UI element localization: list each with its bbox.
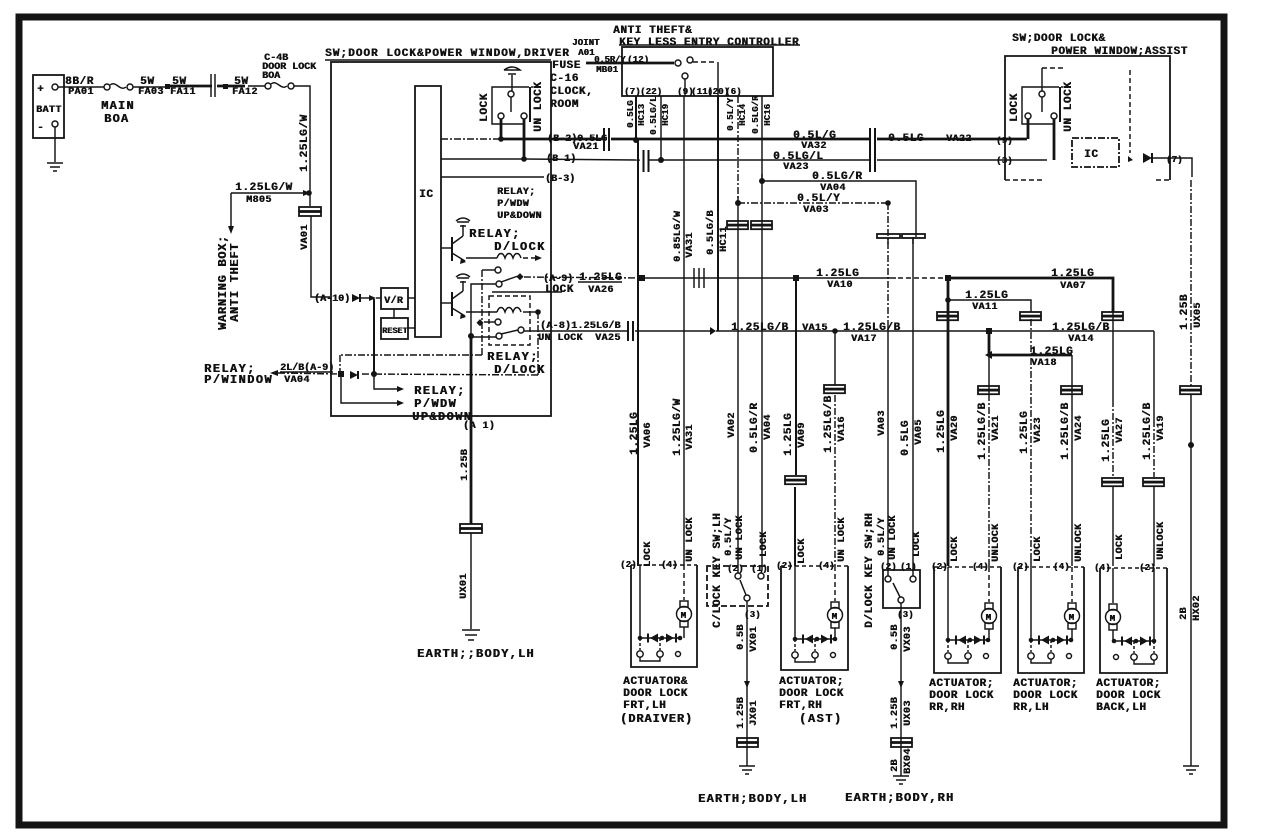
svg-text:(B-3): (B-3) (545, 173, 575, 185)
svg-text:1.25LG: 1.25LG (1051, 268, 1094, 280)
diode pair ACTUATOR DOOR LOCK FRT,RH AST (795, 638, 835, 640)
svg-text:VA20: VA20 (950, 415, 961, 441)
svg-text:FRT,LH: FRT,LH (623, 700, 666, 712)
wire 1.25LG VA11 (945, 297, 951, 303)
switch LOCK/UNLOCK driver (492, 87, 524, 124)
svg-text:UN LOCK: UN LOCK (533, 82, 545, 132)
svg-text:DOOR LOCK: DOOR LOCK (1096, 690, 1161, 702)
wire ic dash (1129, 70, 1131, 153)
svg-text:(AST): (AST) (799, 712, 843, 726)
svg-text:UNLOCK: UNLOCK (991, 524, 1002, 562)
svg-text:1.25B: 1.25B (1179, 294, 1191, 330)
ground battery (47, 163, 63, 171)
wire 1.25LG/W M805 branch (231, 192, 305, 194)
wire unlock contact down (523, 119, 526, 159)
svg-text:1.25LG: 1.25LG (965, 290, 1008, 302)
svg-text:VA03: VA03 (803, 205, 829, 216)
svg-text:VA21: VA21 (991, 415, 1002, 441)
svg-text:0.5L/Y: 0.5L/Y (876, 518, 888, 556)
transistor Q1 (451, 237, 453, 261)
svg-text:1.25LG/W: 1.25LG/W (235, 182, 293, 194)
connector on VA19 (1143, 478, 1164, 482)
svg-text:ANTI THEFT: ANTI THEFT (228, 243, 242, 322)
svg-text:UP&DOWN: UP&DOWN (497, 211, 542, 222)
relay contact A-9 LOCK (482, 269, 495, 271)
wire 1.25LG VA20 lock RR RH (947, 278, 950, 566)
svg-text:ACTUATOR;: ACTUATOR; (1013, 678, 1078, 690)
fuse C-4B DOOR LOCK 80A (248, 85, 265, 87)
svg-text:1.25LG: 1.25LG (629, 412, 641, 455)
node junction splice (898, 681, 904, 688)
svg-text:VA21: VA21 (573, 142, 599, 153)
svg-text:1.25LG: 1.25LG (1030, 346, 1073, 358)
svg-text:0.5R/Y: 0.5R/Y (594, 55, 626, 65)
node junction (165, 84, 170, 89)
svg-text:VA15: VA15 (802, 323, 828, 334)
wire pin7 down (1152, 158, 1192, 172)
svg-text:FA12: FA12 (232, 87, 258, 98)
wire 0.5L/Y VA03 (737, 196, 739, 203)
diode assist out (1143, 153, 1152, 163)
svg-text:UN LOCK: UN LOCK (735, 515, 746, 560)
svg-text:M: M (681, 611, 686, 621)
svg-text:EARTH;;BODY,LH: EARTH;;BODY,LH (417, 647, 535, 661)
svg-text:0.5L/Y: 0.5L/Y (797, 193, 840, 205)
transistor Q2 (451, 292, 453, 316)
svg-text:M: M (986, 613, 991, 623)
ground HX02 (1183, 766, 1199, 774)
wire 1.25B UX01 pin A1 (470, 416, 473, 524)
svg-text:C-16: C-16 (550, 73, 579, 85)
connector on VA27 (1102, 312, 1123, 316)
wire 0.5B VX03 (900, 603, 902, 776)
wire 0.5LG VA21 B-2 (501, 138, 602, 141)
svg-text:BX04: BX04 (903, 748, 914, 774)
svg-text:JX01: JX01 (749, 700, 760, 726)
svg-text:(2): (2) (1139, 563, 1156, 573)
svg-text:SW;DOOR LOCK&: SW;DOOR LOCK& (1012, 33, 1106, 45)
svg-text:VA04: VA04 (284, 375, 310, 386)
svg-text:1.25B: 1.25B (736, 697, 747, 729)
svg-text:M: M (1110, 614, 1115, 624)
svg-text:UN LOCK: UN LOCK (837, 517, 848, 562)
svg-text:VX03: VX03 (903, 626, 914, 652)
svg-text:EARTH;BODY,RH: EARTH;BODY,RH (845, 791, 954, 805)
svg-text:VA01: VA01 (300, 224, 311, 250)
connector VA23 (870, 150, 875, 172)
svg-text:HC16: HC16 (763, 104, 773, 126)
wire assist lock down (1027, 119, 1030, 139)
wire IC B-1 (441, 158, 523, 160)
node junction VA14/VA21 (986, 328, 992, 334)
svg-text:1.25LG/B: 1.25LG/B (843, 322, 901, 334)
svg-text:RELAY;: RELAY; (469, 227, 521, 241)
wire IC B-2 (441, 138, 500, 140)
svg-text:+: + (37, 84, 44, 96)
contacts ACTUATOR DOOR LOCK BACK,LH (1134, 641, 1154, 653)
svg-text:UN LOCK: UN LOCK (685, 517, 696, 562)
svg-text:DOOR LOCK: DOOR LOCK (779, 688, 844, 700)
svg-text:(A-10): (A-10) (314, 293, 350, 305)
connector on VA04 (751, 221, 772, 225)
svg-text:VA31: VA31 (685, 424, 696, 450)
wire VA03 key RH unlock (885, 200, 891, 206)
wire 1.25B A1 internal (470, 336, 473, 416)
svg-text:(B 1): (B 1) (546, 153, 576, 165)
connector on VA10 (694, 268, 704, 288)
diode pair ACTUATOR DOOR LOCK BACK,LH (1114, 640, 1154, 642)
svg-text:FA03: FA03 (138, 87, 164, 98)
svg-text:0.5LG: 0.5LG (626, 100, 636, 128)
wire pin6 0.5L/Y HC14 (737, 96, 739, 203)
wire 5W FA12 (217, 85, 245, 88)
svg-text:V/R: V/R (384, 295, 403, 307)
svg-text:P/WDW: P/WDW (414, 397, 457, 411)
wire 1.25LG VA10 (645, 277, 896, 279)
svg-text:0.5LG/R: 0.5LG/R (749, 403, 761, 453)
wire VA01 to pin A-10 (311, 216, 330, 297)
svg-text:(DRAIVER): (DRAIVER) (620, 712, 693, 726)
svg-text:BATT: BATT (36, 105, 62, 116)
svg-text:1.25LG: 1.25LG (783, 413, 795, 456)
wire unlock to motor ACTUATOR DOOR LOCK FRT,RH AST (834, 566, 836, 601)
wire lock into actuator ACTUATOR DOOR LOCK FRT,LH DRIVER (639, 565, 641, 638)
wire battery negative (54, 127, 56, 162)
svg-text:1.25LG/B: 1.25LG/B (823, 395, 835, 453)
wire relay contact feed (340, 270, 482, 372)
svg-text:(2): (2) (880, 562, 897, 572)
connector on VA09 (785, 476, 806, 480)
wire VA02 key LH unlock (737, 203, 739, 573)
svg-text:RR,RH: RR,RH (929, 702, 965, 714)
ground Q1 collector (462, 225, 464, 236)
wire 0.5B VX01 (746, 601, 748, 766)
wire assist unlock down (1053, 119, 1056, 160)
motor M ACTUATOR DOOR LOCK RR,RH (985, 603, 993, 609)
wire lock into actuator ACTUATOR DOOR LOCK FRT,RH AST (794, 566, 796, 639)
svg-text:VA23: VA23 (1033, 417, 1044, 443)
wire 0.5L/G VA32 (611, 138, 869, 141)
svg-text:(2): (2) (931, 562, 948, 572)
svg-text:RR,LH: RR,LH (1013, 702, 1049, 714)
svg-text:VA11: VA11 (972, 302, 998, 313)
svg-text:FA11: FA11 (170, 87, 196, 98)
wire unlock into actuator ACTUATOR DOOR LOCK BACK,LH (1153, 568, 1155, 641)
connector on VA24 (1061, 386, 1082, 390)
wire lock into actuator ACTUATOR DOOR LOCK RR,RH (947, 567, 949, 640)
svg-text:M805: M805 (246, 195, 272, 206)
svg-text:0.5LG: 0.5LG (900, 420, 912, 456)
ground Q2 collector (462, 281, 464, 291)
svg-text:ROOM: ROOM (550, 99, 579, 111)
svg-text:HX02: HX02 (1192, 595, 1203, 621)
motor M ACTUATOR DOOR LOCK FRT,LH DRIVER (680, 601, 688, 607)
wire 1.25LG/B VA19 unlock BACK LH (1153, 331, 1155, 420)
svg-text:(7): (7) (624, 87, 641, 97)
svg-text:VA24: VA24 (1074, 415, 1085, 441)
connector on VA23 (1020, 312, 1041, 316)
svg-text:BACK,LH: BACK,LH (1096, 702, 1146, 714)
svg-text:HC13: HC13 (637, 104, 647, 126)
svg-text:VA05: VA05 (914, 419, 925, 445)
svg-text:(1): (1) (751, 564, 768, 574)
wire 1.25LG/W VA01 (294, 86, 310, 206)
connector VA21 (604, 128, 609, 151)
svg-text:(2): (2) (776, 561, 793, 571)
wire VA25 to junction (635, 330, 712, 332)
svg-text:BOA: BOA (104, 112, 129, 126)
svg-text:-: - (37, 122, 44, 134)
wire 1.25LG VA18 (989, 331, 1072, 355)
wire unlock to motor ACTUATOR DOOR LOCK RR,LH (1071, 567, 1073, 602)
connector on UX05 (1180, 386, 1201, 390)
svg-text:BOA: BOA (262, 71, 280, 82)
svg-text:SW;DOOR LOCK&POWER WINDOW,DRIV: SW;DOOR LOCK&POWER WINDOW,DRIVER (325, 48, 570, 60)
svg-text:2B: 2B (890, 759, 901, 772)
wire 2B HX02 (1190, 394, 1192, 766)
svg-text:VA27: VA27 (1115, 417, 1126, 443)
svg-text:0.5L/Y: 0.5L/Y (726, 97, 736, 131)
svg-text:0.5B: 0.5B (890, 624, 901, 650)
connector on VA02 (727, 221, 748, 225)
svg-text:JOINT: JOINT (572, 38, 600, 48)
svg-text:ACTUATOR;: ACTUATOR; (779, 676, 844, 688)
wire pin22 0.5LG/L HC19 (660, 96, 662, 160)
svg-text:PA01: PA01 (68, 87, 94, 98)
svg-text:VA26: VA26 (588, 285, 614, 296)
svg-text:UX01: UX01 (459, 573, 470, 599)
node junction VA10/VA07 (945, 275, 951, 281)
ground earth body LH (739, 766, 755, 774)
connector JX01 (737, 738, 758, 742)
ground assist switch (1041, 68, 1043, 91)
connector on VA16 (824, 385, 845, 389)
svg-text:D/LOCK KEY SW;RH: D/LOCK KEY SW;RH (864, 513, 876, 628)
svg-text:VA03: VA03 (877, 410, 888, 436)
wire arrow to relay p/wdw 1 (374, 376, 398, 389)
svg-text:1.25LG/B: 1.25LG/B (731, 322, 789, 334)
diode D A-10 (352, 294, 360, 302)
connector B1 (644, 150, 649, 172)
svg-text:(A 1): (A 1) (463, 420, 495, 432)
wire 8B/R PA01 (58, 86, 104, 88)
svg-text:1.25LG/B: 1.25LG/B (1142, 402, 1154, 460)
svg-text:1.25B: 1.25B (460, 449, 471, 481)
svg-text:C/LOCK KEY SW;LH: C/LOCK KEY SW;LH (712, 513, 724, 628)
svg-text:P/WDW: P/WDW (497, 198, 529, 210)
svg-text:RESET: RESET (382, 326, 408, 336)
svg-text:RELAY;: RELAY; (487, 350, 539, 364)
svg-text:LOCK: LOCK (912, 531, 923, 557)
svg-text:(7): (7) (1166, 155, 1183, 165)
battery BATT (33, 75, 64, 138)
contacts ACTUATOR DOOR LOCK FRT,LH DRIVER (640, 638, 660, 650)
connector bar (211, 74, 215, 97)
svg-text:HC14: HC14 (738, 103, 748, 126)
svg-text:1.25LG/W: 1.25LG/W (299, 114, 311, 172)
node junction VA26/VA10 (639, 275, 645, 281)
actuator ACTUATOR DOOR LOCK RR,LH (1018, 566, 1084, 568)
svg-text:ACTUATOR;: ACTUATOR; (1096, 678, 1161, 690)
svg-text:1.25LG: 1.25LG (1019, 411, 1031, 454)
svg-text:VA18: VA18 (1031, 358, 1057, 369)
wire A-10 node down (373, 299, 375, 374)
svg-text:IC: IC (419, 189, 433, 201)
svg-text:(2): (2) (620, 560, 637, 570)
svg-text:VA23: VA23 (783, 162, 809, 173)
svg-text:FUSE: FUSE (552, 60, 581, 72)
svg-text:LOCK: LOCK (545, 284, 574, 296)
IC assist (1072, 138, 1119, 167)
svg-text:VA19: VA19 (1156, 415, 1167, 441)
switch box SW door lock driver (331, 62, 551, 416)
svg-text:2B: 2B (1179, 607, 1190, 620)
svg-text:UX03: UX03 (903, 700, 914, 726)
wire lock into actuator ACTUATOR DOOR LOCK RR,LH (1030, 567, 1032, 640)
wire 5W FA03 (133, 86, 166, 88)
connector VA01 (299, 207, 321, 211)
wire A-9 dashdot to relay (362, 374, 538, 375)
wire 0.5LG/R VA04 key LH lock (761, 181, 762, 573)
wire relay feed vertical (537, 312, 539, 375)
svg-text:VA10: VA10 (827, 280, 853, 291)
svg-text:0.5LG/B: 0.5LG/B (705, 210, 717, 255)
svg-text:1.25LG: 1.25LG (936, 410, 948, 453)
svg-text:VA07: VA07 (1060, 281, 1086, 292)
svg-text:LOCK: LOCK (643, 541, 654, 567)
actuator ACTUATOR DOOR LOCK FRT,RH AST (781, 565, 848, 567)
svg-text:MB01: MB01 (596, 65, 619, 75)
wire 0.5R/Y MB01 (586, 62, 674, 65)
svg-text:1.25LG: 1.25LG (1101, 419, 1113, 462)
svg-text:(4): (4) (1094, 563, 1111, 573)
controller box (619, 44, 800, 46)
relay contact A-8 UN LOCK (496, 333, 502, 339)
svg-text:VA04: VA04 (763, 414, 774, 440)
svg-text:UN LOCK: UN LOCK (538, 333, 583, 344)
svg-text:HC11: HC11 (719, 226, 730, 252)
node junction splice (744, 681, 750, 688)
svg-text:LOCK: LOCK (950, 536, 961, 562)
svg-text:(6): (6) (725, 87, 742, 97)
motor M ACTUATOR DOOR LOCK FRT,RH AST (831, 602, 839, 608)
wire 1.25LG VA06 lock FRT LH (637, 140, 639, 566)
connector VA32 (870, 128, 875, 151)
svg-text:RELAY;: RELAY; (414, 384, 466, 398)
wire IC B-3 (441, 176, 544, 178)
wire A-9 1.25LG LOCK VA26 (524, 277, 640, 278)
svg-text:(1): (1) (900, 562, 917, 572)
svg-text:(3): (3) (744, 610, 761, 620)
svg-text:UNLOCK: UNLOCK (1156, 522, 1167, 560)
svg-text:(4): (4) (972, 562, 989, 572)
motor M ACTUATOR DOOR LOCK RR,LH (1068, 603, 1076, 609)
ground earth body RH (893, 776, 909, 784)
svg-text:VA22: VA22 (946, 134, 972, 145)
actuator ACTUATOR DOOR LOCK FRT,LH DRIVER (631, 564, 697, 566)
svg-text:UNLOCK: UNLOCK (1074, 524, 1085, 562)
connector UX01 (460, 524, 482, 528)
switch LOCK/UNLOCK assist (1022, 87, 1054, 124)
svg-text:EARTH;BODY,LH: EARTH;BODY,LH (698, 792, 807, 806)
relay box D/LOCK (489, 296, 530, 345)
svg-text:FRT,RH: FRT,RH (779, 700, 822, 712)
svg-text:RELAY;: RELAY; (497, 187, 535, 198)
contacts ACTUATOR DOOR LOCK RR,LH (1031, 640, 1051, 652)
svg-text:HC19: HC19 (661, 104, 671, 126)
svg-text:(3): (3) (897, 610, 914, 620)
wire lock contact down (500, 119, 503, 139)
connector on VA05 (902, 234, 925, 238)
actuator ACTUATOR DOOR LOCK RR,RH (934, 566, 1001, 568)
connector on VA03 (877, 234, 900, 238)
svg-text:(4): (4) (1053, 562, 1070, 572)
svg-text:VA17: VA17 (851, 334, 877, 345)
svg-text:P/WINDOW: P/WINDOW (204, 373, 273, 387)
node junction VA10/VA09 (793, 275, 799, 281)
svg-text:0.5L/Y: 0.5L/Y (723, 518, 735, 556)
svg-text:D/LOCK: D/LOCK (494, 240, 546, 254)
svg-text:VA25: VA25 (595, 333, 621, 344)
ground switch common (504, 67, 520, 74)
svg-text:LOCK: LOCK (797, 538, 808, 564)
relay coil D/LOCK lower (466, 311, 497, 313)
svg-text:ACTUATOR;: ACTUATOR; (929, 678, 994, 690)
svg-text:DOOR LOCK: DOOR LOCK (623, 688, 688, 700)
svg-text:M: M (1069, 613, 1074, 623)
svg-text:0.5LG/L: 0.5LG/L (649, 96, 659, 135)
svg-text:MAIN: MAIN (101, 99, 135, 113)
wire 1.25LG VA23 lock RR LH (1030, 319, 1032, 556)
wire pin6b 0.5LG/R HC16 (761, 96, 763, 181)
svg-text:VA06: VA06 (643, 422, 654, 448)
svg-text:(2): (2) (727, 564, 744, 574)
wire 1.25LG/B VA15 VA17 VA14 (716, 330, 1154, 332)
regulator V/R (381, 288, 408, 309)
svg-text:VA02: VA02 (727, 412, 738, 438)
svg-text:LOCK: LOCK (759, 531, 770, 557)
svg-text:IC: IC (1084, 149, 1098, 161)
connector on VA21 (978, 386, 999, 390)
wire 1.25LG VA27 lock BACK LH (1112, 312, 1114, 400)
svg-text:VA31: VA31 (685, 232, 696, 258)
svg-text:1.25LG/B: 1.25LG/B (977, 402, 989, 460)
svg-text:DOOR LOCK: DOOR LOCK (929, 690, 994, 702)
wire 1.25LG VA09 lock FRT RH (795, 278, 797, 475)
svg-text:UX05: UX05 (1193, 302, 1204, 328)
svg-text:1.25B: 1.25B (890, 697, 901, 729)
reset box RESET (381, 318, 408, 339)
svg-text:VX01: VX01 (749, 626, 760, 652)
svg-text:VA09: VA09 (797, 422, 808, 448)
actuator ACTUATOR DOOR LOCK BACK,LH (1100, 567, 1167, 569)
svg-text:UN LOCK: UN LOCK (1063, 82, 1075, 132)
wire to warning box with arrow (230, 193, 232, 228)
svg-text:0.5LG/R: 0.5LG/R (812, 171, 862, 183)
wire 1.25B UX05 (1190, 180, 1192, 386)
svg-text:(4): (4) (818, 561, 835, 571)
svg-text:ANTI THEFT&: ANTI THEFT& (613, 25, 692, 37)
wire A-8 1.25LG/B UN LOCK VA25 (524, 330, 627, 332)
wire 1.25LG VA07 (951, 278, 1113, 312)
wire lock to motor ACTUATOR DOOR LOCK BACK,LH (1112, 568, 1114, 603)
svg-text:0.5B: 0.5B (736, 624, 747, 650)
wire relay commons to 1.25B (471, 284, 496, 336)
wire 5W FA11 (170, 85, 212, 88)
svg-text:A01: A01 (578, 48, 595, 58)
ground earth body LH driver (462, 630, 480, 640)
svg-text:LOCK: LOCK (1009, 93, 1021, 122)
